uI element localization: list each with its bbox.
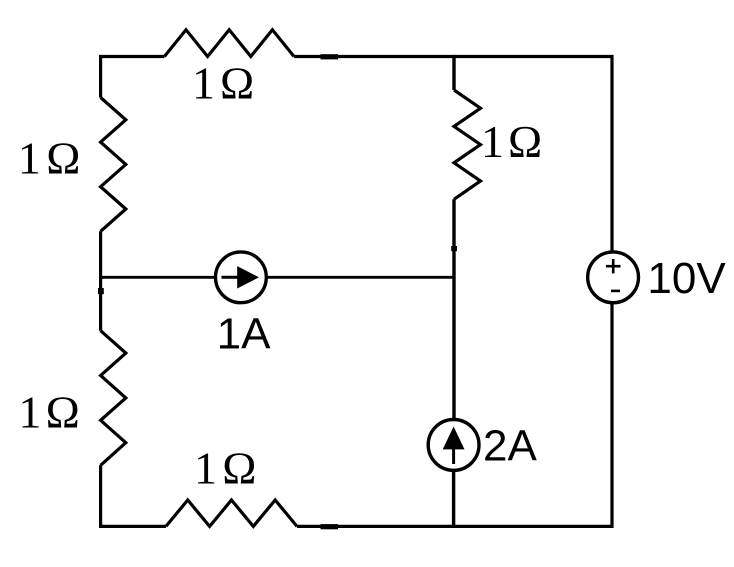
svg-text:Ω: Ω (220, 57, 254, 108)
svg-text:10V: 10V (647, 254, 726, 303)
resistor 1Ω left-upper (101, 98, 126, 232)
svg-text:1: 1 (192, 57, 215, 108)
resistor 1Ω middle (454, 90, 481, 199)
label 1Ω middle (481, 116, 542, 167)
resistor bottom terminal dash (321, 524, 339, 529)
voltage source V1 10V circle (588, 252, 639, 303)
svg-text:Ω: Ω (508, 116, 542, 167)
svg-text:1: 1 (194, 443, 217, 494)
voltage source plus sign (606, 259, 621, 273)
svg-text:Ω: Ω (46, 387, 80, 438)
wire bottom-right segment (297, 525, 612, 528)
svg-text:Ω: Ω (222, 443, 256, 494)
resistor 1Ω left-lower (101, 331, 126, 466)
svg-text:1: 1 (18, 133, 41, 184)
resistor 1Ω top (164, 30, 294, 57)
current source 1A arrow (222, 266, 259, 288)
wire top-left segment (101, 55, 165, 58)
current source I1 1A circle (216, 252, 267, 303)
resistor top terminal dash (321, 54, 339, 59)
wire middle horizontal left segment (101, 276, 217, 279)
wire bottom-left segment (99, 525, 166, 528)
left-lower resistor terminal dash (98, 288, 104, 294)
wire middle vertical top stub (452, 55, 455, 90)
svg-text:2A: 2A (483, 422, 537, 471)
wire middle vertical bottom stub (452, 470, 455, 528)
svg-text:Ω: Ω (46, 133, 80, 184)
wire right lower segment (610, 303, 613, 529)
wire left middle segment (99, 231, 102, 330)
wire left upper stub (99, 55, 102, 98)
wire top-right segment (294, 55, 612, 58)
label 1Ω bottom (194, 443, 256, 494)
label 1Ω left-lower (18, 387, 79, 438)
wire right upper segment (610, 55, 613, 253)
svg-text:1A: 1A (217, 310, 271, 359)
label 1Ω left-upper (18, 133, 80, 184)
svg-text:1: 1 (18, 387, 41, 438)
label 1Ω top (192, 57, 254, 108)
resistor 1Ω bottom (166, 500, 297, 526)
wire middle vertical mid segment (452, 199, 455, 420)
voltage source minus sign (611, 290, 620, 293)
svg-text:1: 1 (481, 116, 504, 167)
wire left bottom stub (99, 465, 102, 528)
current source I2 2A circle (428, 420, 479, 471)
current source 2A arrow (443, 427, 465, 465)
middle resistor terminal dash (451, 246, 457, 251)
wire middle horizontal right segment (266, 276, 456, 279)
